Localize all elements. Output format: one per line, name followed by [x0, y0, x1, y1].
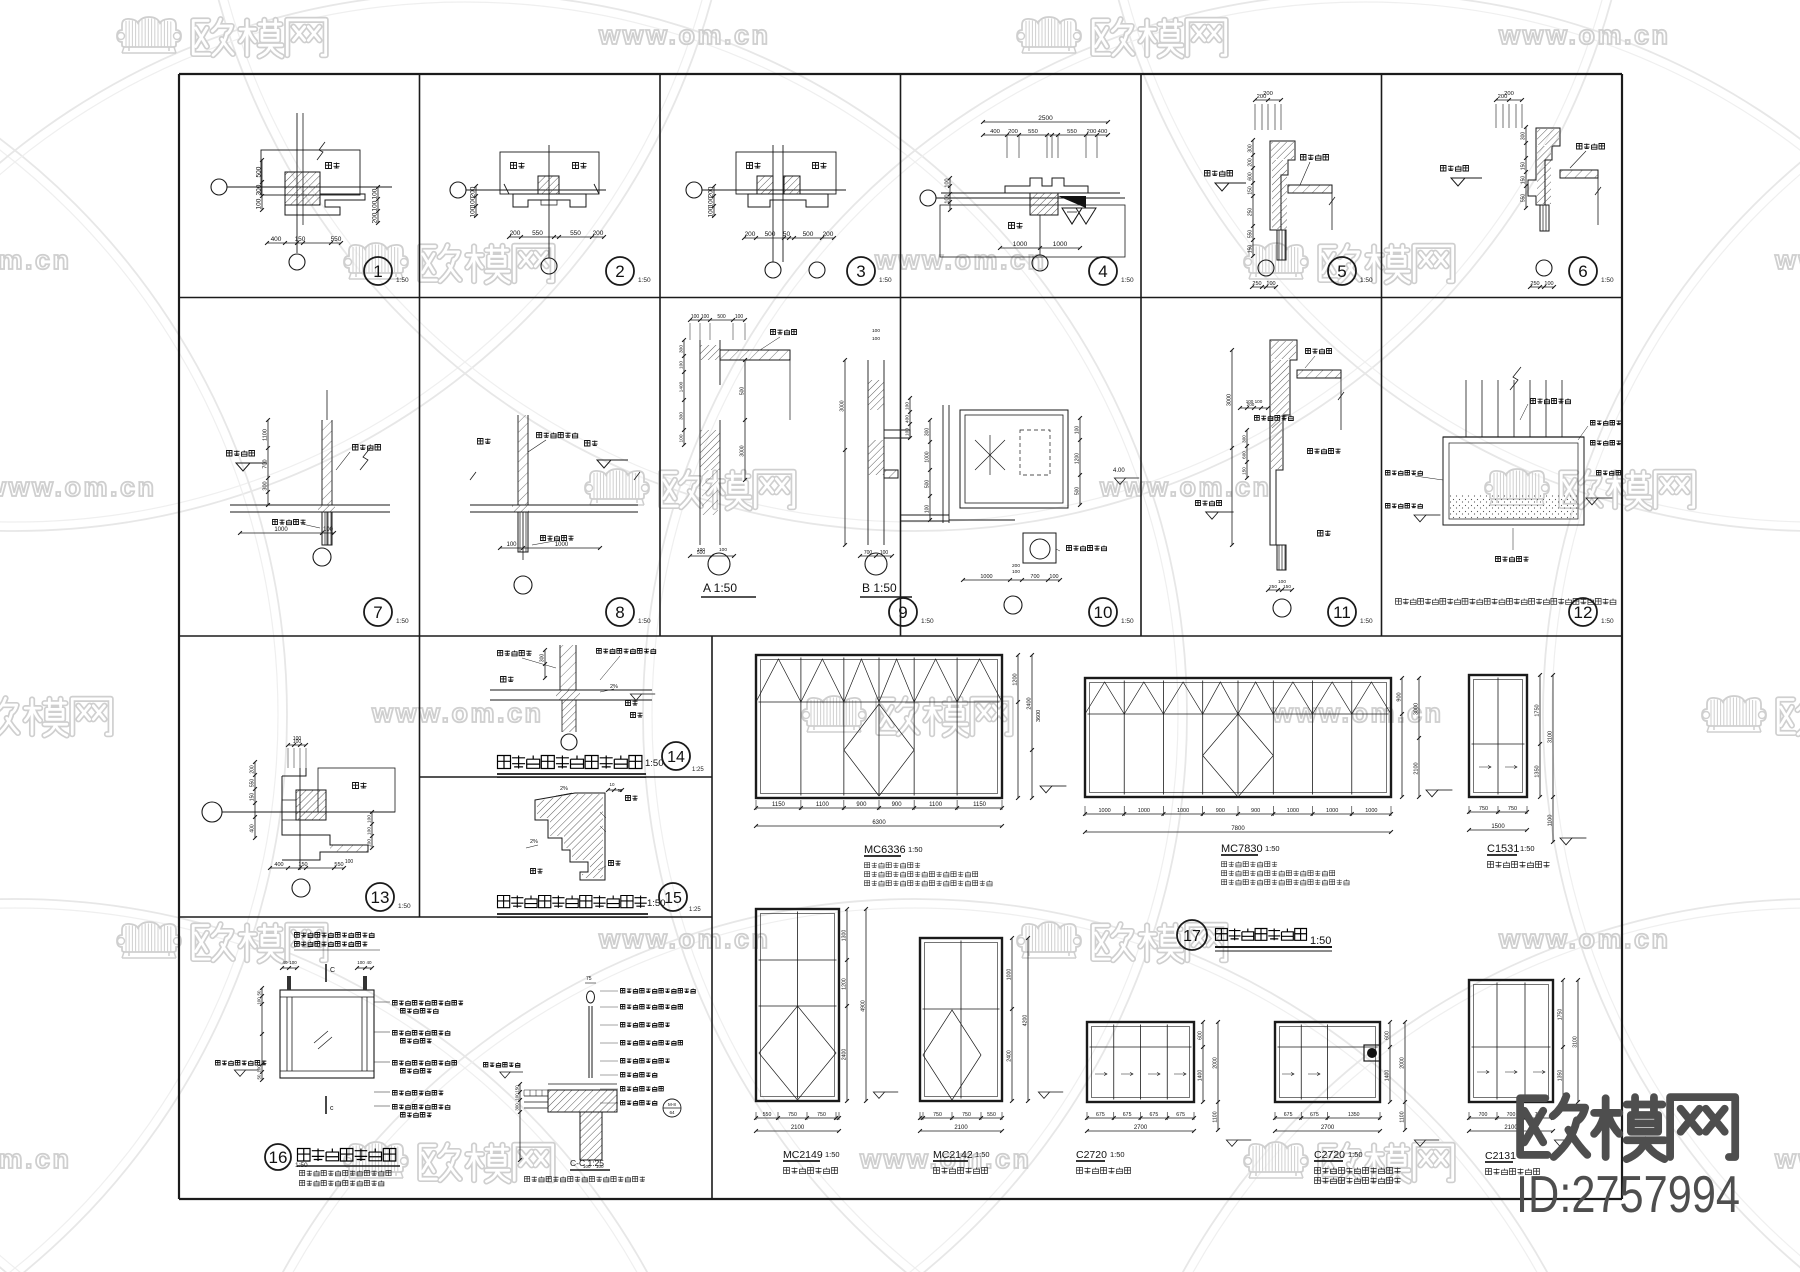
svg-text:900: 900 — [856, 802, 867, 808]
svg-text:100: 100 — [880, 550, 889, 556]
svg-text:MC7830: MC7830 — [1221, 843, 1263, 855]
svg-text:900: 900 — [892, 802, 903, 808]
svg-text:100: 100 — [506, 542, 517, 548]
svg-text:C2720: C2720 — [1076, 1149, 1107, 1161]
svg-text:C-C 1:25: C-C 1:25 — [570, 1158, 604, 1168]
svg-text:5: 5 — [1337, 262, 1346, 281]
svg-text:600: 600 — [1242, 451, 1247, 459]
svg-text:700: 700 — [263, 459, 269, 468]
svg-text:1:50: 1:50 — [398, 903, 411, 910]
svg-text:MC2149: MC2149 — [783, 1149, 823, 1161]
svg-text:2000: 2000 — [1213, 1057, 1219, 1069]
svg-text:2700: 2700 — [1134, 1125, 1148, 1131]
svg-text:MC6336: MC6336 — [864, 844, 906, 856]
svg-text:ID:2757994: ID:2757994 — [1516, 1166, 1740, 1224]
svg-text:100: 100 — [735, 314, 744, 320]
svg-text:250: 250 — [1248, 208, 1254, 217]
svg-text:2400: 2400 — [842, 1049, 848, 1061]
svg-text:1000: 1000 — [274, 527, 288, 533]
svg-text:100: 100 — [367, 827, 373, 835]
svg-text:100: 100 — [905, 428, 911, 436]
svg-text:1:50: 1:50 — [396, 277, 409, 284]
svg-text:400: 400 — [990, 129, 1000, 135]
svg-text:8: 8 — [615, 603, 624, 622]
svg-text:300: 300 — [925, 428, 931, 437]
svg-text:550: 550 — [1067, 129, 1077, 135]
svg-text:900: 900 — [1251, 808, 1260, 814]
svg-text:900: 900 — [1397, 692, 1403, 701]
svg-text:www.om.cn: www.om.cn — [598, 924, 771, 954]
svg-text:1:50: 1:50 — [879, 277, 892, 284]
svg-text:C: C — [330, 967, 335, 974]
svg-text:1000: 1000 — [555, 542, 569, 548]
svg-text:750: 750 — [817, 1112, 826, 1118]
svg-text:www.om.cn: www.om.cn — [1774, 245, 1800, 275]
svg-text:7: 7 — [373, 603, 382, 622]
svg-text:400: 400 — [250, 824, 256, 833]
svg-text:700: 700 — [1030, 574, 1039, 580]
svg-text:500: 500 — [803, 231, 814, 238]
svg-text:www.om.cn: www.om.cn — [598, 20, 771, 50]
svg-text:900: 900 — [1216, 808, 1225, 814]
svg-text:www.om.cn: www.om.cn — [1774, 1144, 1800, 1174]
svg-text:500: 500 — [717, 314, 726, 320]
svg-text:3000: 3000 — [740, 445, 746, 456]
svg-text:100: 100 — [470, 206, 477, 217]
svg-text:64: 64 — [669, 1110, 675, 1115]
svg-text:1100: 1100 — [929, 802, 943, 808]
svg-text:675: 675 — [1150, 1112, 1159, 1118]
svg-text:2100: 2100 — [1414, 762, 1420, 774]
svg-text:2400: 2400 — [1007, 1050, 1013, 1062]
svg-text:2100: 2100 — [791, 1125, 805, 1131]
svg-text:15: 15 — [664, 890, 682, 907]
svg-text:7800: 7800 — [1231, 826, 1245, 832]
svg-text:750: 750 — [788, 1112, 797, 1118]
svg-text:C1531: C1531 — [1487, 843, 1519, 855]
svg-text:1000: 1000 — [925, 451, 931, 462]
svg-text:2500: 2500 — [1038, 115, 1053, 122]
svg-text:400: 400 — [274, 862, 283, 868]
svg-text:100: 100 — [1544, 281, 1553, 287]
svg-text:1:50: 1:50 — [638, 618, 651, 625]
svg-text:1:50: 1:50 — [921, 618, 934, 625]
svg-text:c: c — [330, 1105, 334, 1112]
svg-text:300: 300 — [1521, 132, 1527, 141]
svg-text:16: 16 — [269, 1148, 288, 1167]
svg-text:2%: 2% — [560, 786, 568, 792]
svg-text:200: 200 — [510, 230, 521, 237]
svg-text:17: 17 — [1183, 928, 1201, 945]
svg-text:1:50: 1:50 — [1348, 1150, 1363, 1159]
svg-text:100: 100 — [256, 198, 263, 209]
svg-text:150: 150 — [1521, 176, 1527, 185]
svg-text:100: 100 — [679, 361, 685, 369]
svg-text:1000: 1000 — [1098, 808, 1110, 814]
svg-text:www.om.cn: www.om.cn — [1099, 472, 1272, 502]
svg-text:550: 550 — [1248, 230, 1254, 239]
svg-text:300: 300 — [679, 412, 685, 420]
svg-text:6300: 6300 — [872, 820, 886, 826]
svg-text:10: 10 — [609, 782, 615, 787]
svg-text:1200: 1200 — [842, 978, 848, 990]
svg-text:150: 150 — [298, 862, 307, 868]
svg-text:A 1:50: A 1:50 — [703, 581, 737, 595]
svg-text:1100: 1100 — [263, 429, 269, 441]
svg-text:1:50: 1:50 — [1110, 1150, 1125, 1159]
svg-text:500: 500 — [740, 387, 746, 396]
svg-text:2000: 2000 — [1400, 1057, 1406, 1069]
svg-text:1100: 1100 — [1548, 815, 1554, 827]
svg-text:1750: 1750 — [1558, 1009, 1564, 1021]
svg-text:50: 50 — [257, 990, 262, 995]
svg-text:1350: 1350 — [1348, 1112, 1360, 1118]
svg-text:200: 200 — [593, 230, 604, 237]
svg-text:100: 100 — [257, 997, 262, 1005]
svg-text:100: 100 — [1266, 281, 1275, 287]
svg-text:100: 100 — [289, 960, 297, 965]
svg-text:3000: 3000 — [1414, 703, 1420, 715]
svg-text:200: 200 — [1263, 91, 1273, 97]
svg-text:3: 3 — [856, 262, 865, 281]
svg-text:100: 100 — [925, 505, 931, 514]
svg-text:1000: 1000 — [1287, 808, 1299, 814]
svg-text:200: 200 — [1008, 129, 1018, 135]
svg-text:1:50: 1:50 — [1520, 844, 1535, 853]
svg-text:500: 500 — [925, 480, 931, 489]
svg-text:1200: 1200 — [1075, 453, 1081, 464]
svg-text:4: 4 — [1098, 262, 1107, 281]
svg-text:675: 675 — [1123, 1112, 1132, 1118]
svg-text:675: 675 — [1176, 1112, 1185, 1118]
svg-text:200: 200 — [372, 212, 379, 223]
svg-text:2700: 2700 — [1321, 1125, 1335, 1131]
svg-text:75: 75 — [586, 976, 592, 982]
svg-text:300: 300 — [540, 654, 546, 663]
svg-text:200: 200 — [250, 765, 256, 774]
svg-text:1500: 1500 — [1491, 824, 1505, 830]
svg-text:250: 250 — [1530, 281, 1539, 287]
svg-text:100: 100 — [708, 206, 715, 217]
svg-text:40: 40 — [366, 960, 372, 965]
svg-text:100: 100 — [697, 547, 705, 553]
svg-text:400: 400 — [271, 236, 282, 243]
svg-text:150: 150 — [250, 793, 256, 802]
svg-text:4.00: 4.00 — [1113, 468, 1125, 474]
svg-text:550: 550 — [570, 230, 581, 237]
svg-text:200: 200 — [470, 186, 477, 197]
svg-text:550: 550 — [334, 862, 343, 868]
svg-text:1:50: 1:50 — [645, 758, 664, 769]
svg-text:3600: 3600 — [1036, 710, 1042, 722]
svg-text:100: 100 — [515, 1093, 520, 1101]
svg-text:12: 12 — [1574, 603, 1593, 622]
svg-text:150: 150 — [1521, 162, 1527, 171]
svg-text:100: 100 — [367, 815, 373, 823]
svg-text:400: 400 — [905, 415, 911, 423]
svg-text:9: 9 — [898, 603, 907, 622]
svg-text:www.om.cn: www.om.cn — [0, 245, 72, 275]
svg-text:500: 500 — [1075, 487, 1081, 496]
svg-text:1000: 1000 — [980, 574, 992, 580]
svg-text:200: 200 — [745, 231, 756, 238]
svg-text:100: 100 — [367, 839, 373, 847]
svg-text:100: 100 — [691, 314, 700, 320]
svg-text:10: 10 — [1094, 603, 1113, 622]
svg-text:3100: 3100 — [1548, 731, 1554, 743]
svg-text:1:25: 1:25 — [692, 767, 704, 773]
svg-text:675: 675 — [1096, 1112, 1105, 1118]
svg-text:200: 200 — [1087, 129, 1097, 135]
svg-text:100: 100 — [1012, 569, 1020, 575]
svg-text:300: 300 — [263, 481, 269, 490]
svg-text:1:25: 1:25 — [689, 907, 701, 913]
svg-text:675: 675 — [1284, 1112, 1293, 1118]
svg-text:6: 6 — [1578, 262, 1587, 281]
svg-text:1750: 1750 — [1535, 704, 1541, 716]
svg-text:100: 100 — [1075, 426, 1081, 435]
svg-text:www.om.cn: www.om.cn — [371, 698, 544, 728]
svg-text:100: 100 — [701, 314, 710, 320]
svg-text:100: 100 — [323, 527, 334, 533]
svg-text:500: 500 — [765, 231, 776, 238]
svg-text:100: 100 — [357, 960, 365, 965]
svg-text:550: 550 — [331, 236, 342, 243]
svg-text:550: 550 — [532, 230, 543, 237]
svg-text:1150: 1150 — [973, 802, 987, 808]
svg-text:1000: 1000 — [1013, 241, 1028, 248]
svg-text:100: 100 — [345, 859, 354, 865]
svg-text:1350: 1350 — [1558, 1070, 1564, 1082]
svg-text:1000: 1000 — [1053, 241, 1068, 248]
svg-text:1:50: 1:50 — [638, 277, 651, 284]
svg-text:1000: 1000 — [1177, 808, 1189, 814]
svg-text:700: 700 — [864, 550, 873, 556]
svg-text:100: 100 — [293, 736, 302, 742]
svg-text:150: 150 — [1283, 584, 1291, 590]
svg-text:100: 100 — [905, 402, 911, 410]
svg-text:550: 550 — [987, 1112, 996, 1118]
svg-text:100 100: 100 100 — [1246, 399, 1263, 404]
svg-text:1100: 1100 — [1213, 1111, 1219, 1122]
svg-text:1200: 1200 — [1013, 673, 1019, 685]
svg-text:100: 100 — [872, 336, 880, 342]
svg-text:M-8: M-8 — [668, 1102, 676, 1107]
svg-text:C2131: C2131 — [1485, 1150, 1516, 1162]
svg-text:150: 150 — [1248, 245, 1254, 254]
svg-text:www.om.cn: www.om.cn — [0, 472, 157, 502]
svg-text:3000: 3000 — [1227, 394, 1233, 406]
svg-text:150: 150 — [515, 1085, 520, 1093]
svg-text:750: 750 — [933, 1112, 942, 1118]
svg-text:1:50: 1:50 — [1360, 618, 1373, 625]
svg-text:2400: 2400 — [1027, 697, 1033, 709]
svg-text:300: 300 — [256, 184, 263, 195]
svg-text:300: 300 — [1248, 144, 1254, 153]
svg-text:4200: 4200 — [1023, 1015, 1029, 1027]
svg-text:100: 100 — [708, 196, 715, 207]
svg-text:100: 100 — [945, 194, 951, 203]
svg-text:1:50: 1:50 — [1265, 844, 1280, 853]
svg-text:400: 400 — [1098, 129, 1108, 135]
svg-text:50: 50 — [783, 231, 791, 238]
svg-text:200: 200 — [708, 186, 715, 197]
svg-text:300: 300 — [1242, 435, 1247, 443]
svg-text:150: 150 — [295, 236, 306, 243]
svg-text:550: 550 — [250, 779, 256, 788]
svg-text:3100: 3100 — [1573, 1036, 1579, 1048]
svg-text:3000: 3000 — [840, 400, 846, 411]
svg-text:750: 750 — [1508, 806, 1517, 812]
svg-text:13: 13 — [371, 888, 390, 907]
svg-text:675: 675 — [1310, 1112, 1319, 1118]
svg-text:750: 750 — [962, 1112, 971, 1118]
svg-text:www.om.cn: www.om.cn — [1498, 20, 1671, 50]
svg-text:1:50: 1:50 — [908, 845, 923, 854]
svg-text:600: 600 — [1198, 1031, 1204, 1040]
svg-text:1400: 1400 — [1385, 1070, 1391, 1082]
svg-text:11: 11 — [1333, 603, 1351, 622]
svg-text:1100: 1100 — [816, 802, 830, 808]
svg-text:www.om.cn: www.om.cn — [1498, 924, 1671, 954]
svg-text:600: 600 — [1248, 172, 1254, 181]
svg-text:1150: 1150 — [772, 802, 786, 808]
svg-text:200: 200 — [1012, 563, 1020, 569]
svg-text:www.om.cn: www.om.cn — [0, 1144, 72, 1174]
svg-text:1350: 1350 — [1535, 765, 1541, 777]
svg-text:200: 200 — [1248, 158, 1254, 167]
svg-text:100: 100 — [945, 178, 951, 187]
svg-text:250: 250 — [1269, 584, 1277, 590]
svg-text:100: 100 — [872, 328, 880, 334]
svg-text:1000: 1000 — [1365, 808, 1377, 814]
svg-text:1400: 1400 — [679, 381, 685, 392]
svg-text:50: 50 — [618, 788, 623, 793]
svg-text:200: 200 — [823, 231, 834, 238]
svg-text:1:50: 1:50 — [1360, 277, 1373, 284]
svg-text:550: 550 — [1521, 194, 1527, 203]
svg-text:150: 150 — [1242, 467, 1247, 475]
svg-text:300: 300 — [515, 1103, 520, 1111]
svg-text:1400: 1400 — [1198, 1070, 1204, 1082]
svg-text:B 1:50: B 1:50 — [862, 581, 897, 595]
svg-text:1:50: 1:50 — [1121, 618, 1134, 625]
svg-text:2%: 2% — [610, 684, 618, 690]
svg-text:550: 550 — [763, 1112, 772, 1118]
svg-text:1:50: 1:50 — [1601, 618, 1614, 625]
svg-text:700: 700 — [1479, 1112, 1488, 1118]
svg-text:1000: 1000 — [1326, 808, 1338, 814]
svg-text:100: 100 — [257, 1065, 262, 1073]
svg-text:250: 250 — [1252, 281, 1261, 287]
svg-text:C2720: C2720 — [1314, 1149, 1345, 1161]
svg-text:1:50: 1:50 — [975, 1150, 990, 1159]
svg-text:300: 300 — [679, 345, 685, 353]
svg-text:100: 100 — [372, 188, 379, 199]
svg-text:1000: 1000 — [1007, 969, 1013, 981]
svg-text:550: 550 — [1028, 129, 1038, 135]
svg-text:2%: 2% — [530, 839, 538, 845]
svg-text:40: 40 — [282, 960, 288, 965]
svg-text:200: 200 — [1504, 91, 1514, 97]
svg-text:1300: 1300 — [842, 930, 848, 942]
svg-text:14: 14 — [667, 749, 685, 766]
svg-text:1000: 1000 — [1138, 808, 1150, 814]
svg-text:750: 750 — [1479, 806, 1488, 812]
svg-text:2: 2 — [615, 262, 624, 281]
svg-text:100: 100 — [719, 547, 727, 553]
svg-text:1100: 1100 — [1400, 1111, 1406, 1122]
svg-text:1:50: 1:50 — [825, 1150, 840, 1159]
svg-text:1:50: 1:50 — [396, 618, 409, 625]
svg-text:1:50: 1:50 — [1310, 935, 1331, 947]
svg-text:700: 700 — [1507, 1112, 1516, 1118]
svg-text:600: 600 — [1385, 1031, 1391, 1040]
svg-text:100: 100 — [372, 200, 379, 211]
svg-text:1:50: 1:50 — [1121, 277, 1134, 284]
svg-text:2100: 2100 — [954, 1125, 968, 1131]
svg-text:MC2142: MC2142 — [933, 1149, 973, 1161]
svg-text:50: 50 — [257, 1074, 262, 1079]
svg-text:100: 100 — [1049, 574, 1058, 580]
svg-text:100: 100 — [679, 434, 685, 442]
svg-text:100: 100 — [1278, 579, 1286, 585]
svg-text:4900: 4900 — [861, 1000, 867, 1012]
svg-text:1: 1 — [373, 262, 382, 281]
svg-text:1:50: 1:50 — [1601, 277, 1614, 284]
svg-text:100: 100 — [470, 196, 477, 207]
svg-text:150: 150 — [1248, 186, 1254, 195]
svg-text:500: 500 — [256, 166, 263, 177]
